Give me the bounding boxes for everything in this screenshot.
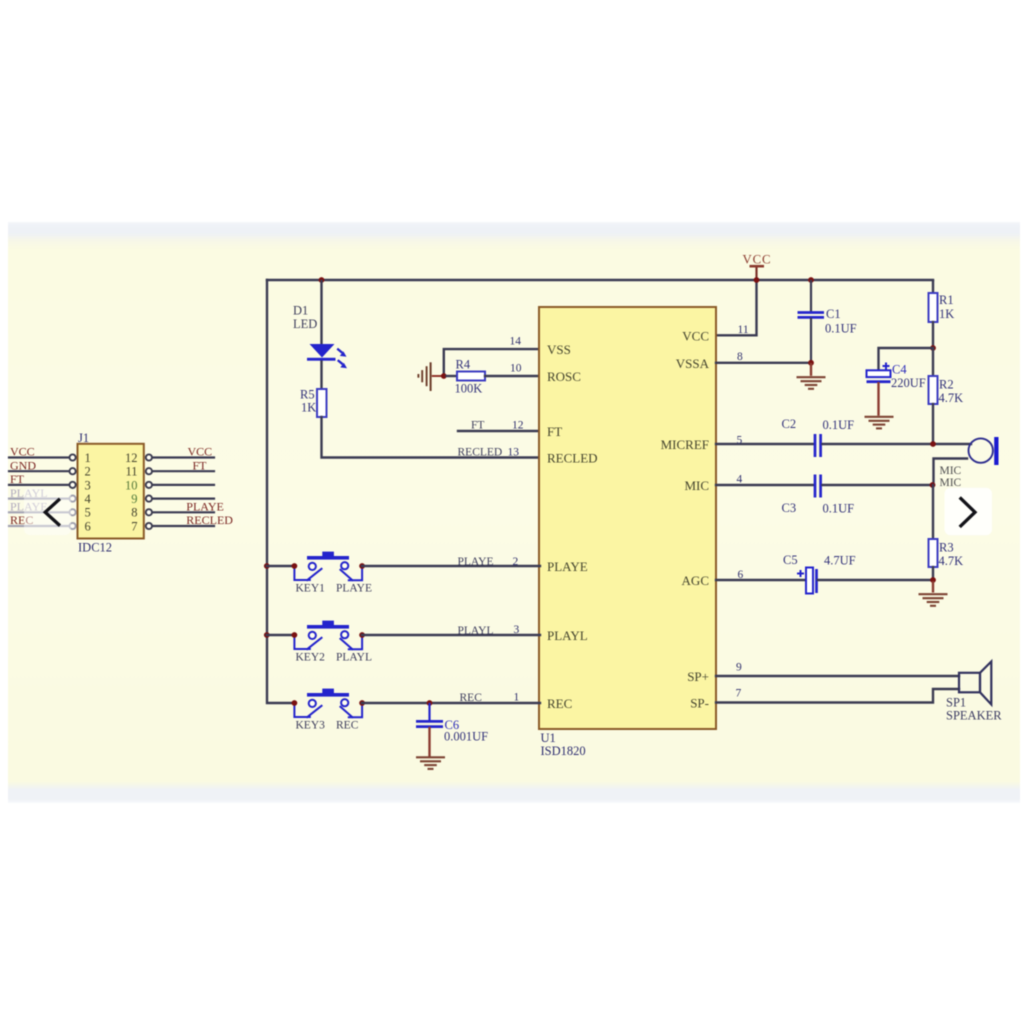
wire KEY1 to U1 pin 2 PLAYE	[362, 565, 540, 567]
svg-text:0.001UF: 0.001UF	[444, 730, 488, 744]
svg-text:2: 2	[85, 465, 91, 479]
svg-text:1K: 1K	[301, 400, 316, 414]
ground below C1	[797, 363, 826, 389]
J1 pin 11 circle	[146, 468, 152, 474]
svg-text:GND: GND	[10, 458, 36, 472]
wire J1 pin 8 right	[152, 511, 214, 513]
U1 pin name VCC	[682, 328, 709, 343]
label VCC J1 right	[188, 445, 213, 459]
microphone MIC	[969, 437, 999, 465]
capacitor C3	[815, 475, 821, 498]
svg-text:0.1UF: 0.1UF	[823, 502, 855, 516]
J1 pin number 1	[85, 451, 91, 465]
svg-text:VCC: VCC	[10, 445, 35, 459]
J1 pin 10 circle	[146, 482, 152, 488]
junction MICREF R2	[930, 441, 936, 447]
wire LED to R5	[320, 362, 322, 389]
label FT J1 right	[193, 458, 208, 472]
svg-text:VCC: VCC	[742, 253, 771, 267]
J1 pin 3 circle	[70, 482, 76, 488]
svg-text:MIC: MIC	[684, 478, 709, 493]
wire R5 to RECLED net	[322, 417, 541, 458]
ground below C6	[416, 757, 445, 769]
svg-text:D1: D1	[293, 304, 308, 318]
svg-text:100K: 100K	[455, 382, 483, 396]
J1 pin number 10	[125, 478, 138, 492]
resistor R1	[929, 281, 938, 348]
svg-text:C1: C1	[826, 307, 841, 321]
label C2 0.1UF	[782, 417, 855, 432]
junction on rail at C1	[808, 277, 814, 283]
svg-text:12: 12	[512, 420, 524, 432]
J1 pin number 11	[125, 465, 137, 479]
svg-text:KEY2: KEY2	[296, 652, 326, 664]
svg-text:MICREF: MICREF	[661, 437, 709, 452]
label net PLAYE	[458, 556, 494, 568]
U1 pin name VSS	[547, 342, 571, 357]
U1 pin name AGC	[682, 573, 709, 588]
label PLAYE J1 left	[10, 500, 48, 514]
svg-text:ISD1820: ISD1820	[541, 744, 586, 758]
pin number 1	[514, 692, 520, 704]
pin number 9	[736, 662, 742, 674]
svg-text:0.1UF: 0.1UF	[823, 418, 855, 432]
wire MIC node to R3	[932, 485, 934, 539]
U1 pin name FT	[547, 424, 562, 439]
svg-text:MIC: MIC	[940, 465, 962, 477]
ground below C4	[865, 417, 894, 429]
svg-text:8: 8	[131, 506, 137, 520]
svg-text:REC: REC	[547, 696, 572, 711]
svg-text:REC: REC	[336, 720, 359, 732]
svg-text:RECLED: RECLED	[186, 513, 233, 527]
junction KEY3 left	[292, 700, 298, 706]
pin number 12	[512, 420, 524, 432]
wire KEY2 to U1 pin 3 PLAYL	[362, 634, 540, 636]
junction on rail at VCC stub	[754, 277, 760, 283]
svg-text:J1: J1	[78, 431, 89, 445]
capacitor C4	[867, 363, 891, 415]
resistor R5	[317, 389, 327, 417]
resistor R3	[929, 539, 938, 580]
svg-text:AGC: AGC	[682, 573, 709, 588]
wire bus to KEY2	[267, 634, 294, 636]
svg-text:PLAYE: PLAYE	[336, 583, 372, 595]
label J1	[78, 431, 89, 445]
svg-text:4.7UF: 4.7UF	[824, 554, 856, 568]
svg-text:14: 14	[510, 336, 522, 348]
label C4 220UF	[891, 363, 926, 390]
J1 pin 8 circle	[146, 509, 152, 515]
J1 pin number 3	[85, 478, 91, 492]
svg-text:PLAYE: PLAYE	[186, 500, 224, 514]
svg-text:7: 7	[131, 519, 137, 533]
nav arrow right	[945, 488, 993, 536]
label SP1 SPEAKER	[946, 696, 1002, 723]
wire J1 pin 9 right	[152, 498, 214, 500]
junction VSS R4 ground	[441, 373, 447, 379]
J1 pin number 2	[85, 465, 91, 479]
label R5 1K	[300, 387, 316, 414]
wire KEY3 to U1 pin 1 REC	[362, 702, 540, 704]
svg-text:13: 13	[508, 447, 520, 459]
svg-text:5: 5	[737, 435, 743, 447]
wire U1 pin 9 SP+	[716, 675, 959, 677]
LED D1	[307, 344, 347, 368]
J1 pin 6 circle	[70, 523, 76, 529]
junction AGC R3 ground	[930, 577, 936, 583]
pin number 4	[737, 474, 743, 486]
J1 pin number 6	[85, 519, 91, 533]
U1 pin name PLAYL	[547, 628, 588, 643]
wire VCC bus left	[267, 280, 294, 703]
svg-text:FT: FT	[10, 472, 25, 486]
svg-text:R3: R3	[939, 541, 954, 555]
connector J1 IDC12 box	[78, 444, 144, 539]
label net REC	[460, 692, 483, 704]
pin number 10	[510, 362, 522, 374]
label KEY1 PLAYE	[296, 583, 373, 595]
label R2 4.7K	[939, 378, 964, 405]
pin number 3	[514, 624, 520, 636]
wire rail to LED D1	[320, 281, 322, 345]
svg-text:9: 9	[131, 492, 137, 506]
wire U1 pin 7 SP-	[716, 689, 959, 703]
wire U1 pin 4 MIC	[716, 484, 814, 486]
J1 pin number 7	[131, 519, 137, 533]
J1 pin number 12	[125, 451, 138, 465]
svg-text:1: 1	[514, 692, 520, 704]
J1 pin 9 circle	[146, 496, 152, 502]
wire U1 pin 11 VCC to rail	[716, 281, 757, 335]
svg-text:ROSC: ROSC	[547, 369, 581, 384]
pin number 8	[737, 351, 743, 363]
svg-text:3: 3	[514, 624, 520, 636]
U1 pin name MIC	[684, 478, 709, 493]
label PLAYL J1 left	[10, 486, 48, 500]
label KEY2 PLAYL	[296, 652, 373, 664]
svg-text:C4: C4	[892, 363, 907, 377]
U1 pin name RECLED	[547, 451, 598, 466]
U1 pin name SP+	[687, 669, 709, 684]
wire J1 pin 11 right	[152, 470, 214, 472]
svg-text:R1: R1	[939, 293, 954, 307]
nav arrow left	[24, 488, 71, 535]
svg-text:KEY1: KEY1	[296, 583, 326, 595]
svg-text:REC: REC	[460, 692, 483, 704]
junction KEY2 left	[292, 632, 298, 638]
capacitor C2	[815, 434, 821, 457]
capacitor C1	[798, 281, 825, 361]
J1 pin 12 circle	[146, 454, 152, 460]
label REC J1 left	[10, 513, 33, 527]
svg-text:PLAYE: PLAYE	[547, 559, 588, 574]
svg-text:VCC: VCC	[682, 328, 709, 343]
pin number 13	[508, 447, 520, 459]
svg-text:6: 6	[738, 569, 744, 581]
power symbol VCC	[742, 253, 771, 281]
svg-text:0.1UF: 0.1UF	[825, 322, 857, 336]
junction KEY1 right	[359, 563, 365, 569]
label net FT	[471, 420, 484, 432]
label R4 100K	[455, 357, 483, 395]
svg-text:8: 8	[737, 351, 743, 363]
svg-text:PLAYL: PLAYL	[547, 628, 588, 643]
pin number 2	[513, 556, 519, 568]
wire J1 pin 7 right	[152, 525, 214, 527]
svg-text:5: 5	[85, 506, 91, 520]
svg-text:PLAYL: PLAYL	[458, 625, 494, 637]
J1 pin number 4	[85, 492, 92, 506]
J1 pin number 8	[131, 506, 137, 520]
capacitor C5	[797, 568, 933, 594]
svg-text:7: 7	[736, 688, 742, 700]
svg-text:9: 9	[736, 662, 742, 674]
junction VSSA C1 ground	[808, 360, 814, 366]
wire microphone to MIC node	[934, 459, 968, 486]
label PLAYE J1 right	[186, 500, 224, 514]
label net PLAYL	[458, 625, 494, 637]
J1 pin number 9	[131, 492, 137, 506]
J1 pin 1 circle	[70, 454, 76, 460]
J1 pin 7 circle	[146, 523, 152, 529]
junction bus KEY2	[264, 632, 270, 638]
pushbutton KEY2	[294, 621, 362, 650]
wire J1 pin 12 right	[152, 456, 214, 458]
label IDC12	[78, 541, 112, 555]
U1 pin name SP-	[690, 696, 709, 711]
pin number 11	[738, 324, 749, 336]
label R1 1K	[939, 293, 954, 321]
wire U1 pin 8 VSSA	[716, 362, 811, 364]
svg-text:6: 6	[85, 519, 91, 533]
resistor R2	[929, 348, 938, 444]
pin number 14	[510, 336, 522, 348]
J1 pin 4 circle	[70, 496, 76, 502]
svg-text:C3: C3	[782, 501, 797, 515]
pin number 5	[737, 435, 743, 447]
label C6 0.001UF	[444, 718, 488, 744]
wire J1 pin 1 left	[9, 456, 69, 458]
label C3 0.1UF	[782, 501, 855, 516]
wire U1 pin 6 AGC	[716, 579, 806, 581]
svg-text:C2: C2	[782, 417, 797, 431]
label RECLED J1 right	[186, 513, 233, 527]
svg-text:LED: LED	[293, 317, 317, 331]
label R3 4.7K	[939, 541, 964, 569]
svg-text:2: 2	[513, 556, 519, 568]
U1 pin name PLAYE	[547, 559, 588, 574]
pin number 6	[738, 569, 744, 581]
svg-text:4.7K: 4.7K	[939, 554, 964, 568]
svg-text:4: 4	[85, 492, 92, 506]
wire J1 pin 4 left	[9, 498, 69, 500]
ground below AGC	[919, 581, 948, 606]
junction R1 R2 C4	[930, 345, 936, 351]
junction on rail at D1	[319, 277, 325, 283]
svg-text:FT: FT	[471, 420, 484, 432]
wire U1 pin 5 MICREF	[716, 443, 814, 445]
label C5 4.7UF	[783, 553, 856, 568]
svg-text:1: 1	[85, 451, 91, 465]
U1 pin name REC	[547, 696, 572, 711]
label C1 0.1UF	[825, 307, 857, 336]
svg-text:1K: 1K	[939, 307, 954, 321]
svg-text:RECLED: RECLED	[458, 447, 503, 459]
svg-text:VSS: VSS	[547, 342, 571, 357]
J1 pin 2 circle	[70, 468, 76, 474]
J1 pin number 5	[85, 506, 91, 520]
junction REC C6	[427, 700, 433, 706]
label U1 ISD1820	[541, 731, 586, 758]
U1 pin name VSSA	[676, 356, 710, 371]
svg-text:C5: C5	[783, 553, 798, 567]
wire bus to KEY1	[267, 565, 294, 567]
wire J1 pin 10 right	[152, 484, 214, 486]
wire U1 pin 14 VSS to ground	[444, 349, 540, 373]
label net RECLED	[458, 447, 503, 459]
svg-text:KEY3: KEY3	[296, 720, 326, 732]
svg-text:10: 10	[510, 362, 522, 374]
label FT J1 left	[10, 472, 25, 486]
wire C2 to microphone	[823, 443, 972, 445]
svg-text:MIC: MIC	[940, 477, 962, 489]
svg-text:RECLED: RECLED	[547, 451, 598, 466]
wire VCC top rail	[267, 279, 933, 281]
svg-text:PLAYE: PLAYE	[458, 556, 494, 568]
pushbutton KEY3	[294, 689, 362, 718]
svg-text:11: 11	[125, 465, 137, 479]
ground near R4	[418, 362, 441, 391]
label D1 LED	[293, 304, 317, 331]
label VCC J1 left	[10, 445, 35, 459]
svg-text:VSSA: VSSA	[676, 356, 710, 371]
svg-text:SP-: SP-	[690, 696, 709, 711]
junction bus KEY1	[264, 563, 270, 569]
junction KEY2 right	[359, 632, 365, 638]
svg-text:4: 4	[737, 474, 743, 486]
svg-text:R2: R2	[939, 378, 954, 392]
svg-text:SPEAKER: SPEAKER	[946, 709, 1002, 723]
svg-text:3: 3	[85, 478, 91, 492]
wire FT net	[458, 430, 540, 432]
svg-text:11: 11	[738, 324, 749, 336]
svg-text:FT: FT	[547, 424, 562, 439]
junction KEY1 left	[292, 563, 298, 569]
speaker SP1	[959, 662, 991, 705]
svg-text:IDC12: IDC12	[78, 541, 112, 555]
svg-text:SP1: SP1	[946, 696, 966, 710]
svg-text:R5: R5	[300, 387, 315, 401]
label KEY3 REC	[296, 720, 359, 732]
wire J1 pin 5 left	[9, 511, 69, 513]
pin number 7	[736, 688, 742, 700]
svg-text:220UF: 220UF	[891, 376, 926, 390]
U1 pin name ROSC	[547, 369, 581, 384]
resistor R4	[447, 372, 541, 381]
svg-text:4.7K: 4.7K	[939, 391, 964, 405]
wire junction to C4	[879, 348, 932, 370]
pushbutton KEY1	[294, 552, 362, 581]
wire J1 pin 3 left	[9, 484, 69, 486]
svg-text:10: 10	[125, 478, 138, 492]
IC U1 ISD1820	[539, 307, 716, 729]
svg-text:12: 12	[125, 451, 138, 465]
label GND J1 left	[10, 458, 36, 472]
wire J1 pin 6 left	[9, 525, 69, 527]
svg-text:FT: FT	[193, 458, 208, 472]
J1 pin 5 circle	[70, 509, 76, 515]
svg-text:R4: R4	[456, 357, 471, 371]
label MIC MIC	[940, 465, 962, 489]
wire J1 pin 2 left	[9, 470, 69, 472]
U1 pin name MICREF	[661, 437, 709, 452]
capacitor C6	[416, 704, 443, 755]
svg-text:SP+: SP+	[687, 669, 709, 684]
wire C3 to MIC node	[823, 484, 934, 486]
junction MIC node	[930, 482, 936, 488]
svg-text:PLAYL: PLAYL	[336, 652, 372, 664]
junction KEY3 right	[359, 700, 365, 706]
svg-text:VCC: VCC	[188, 445, 213, 459]
